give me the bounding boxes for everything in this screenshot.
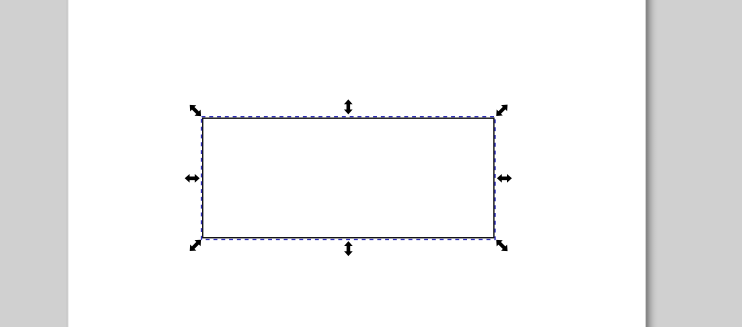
scale handle arrow middle-right bbox=[497, 174, 512, 183]
scale handle arrow top-right bbox=[493, 102, 510, 119]
scale handle arrow bottom-middle bbox=[344, 241, 353, 256]
selection bounding box (dashed blue) bbox=[202, 117, 496, 240]
scale handle arrow bottom-right bbox=[493, 237, 510, 254]
desk area left of page bbox=[0, 0, 70, 327]
page right border and desk shadow bbox=[644, 0, 742, 327]
scale handle arrow top-left bbox=[187, 102, 204, 119]
scale handle arrow middle-left bbox=[185, 174, 200, 183]
selected rectangle (black stroke) bbox=[203, 118, 494, 238]
scale handle arrow top-middle bbox=[344, 99, 353, 114]
scale handle arrow bottom-left bbox=[187, 237, 204, 254]
